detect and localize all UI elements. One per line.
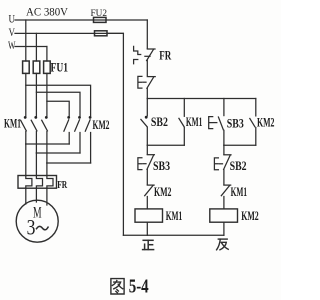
wire V line: [15, 32, 123, 34]
caption 5-4 text: [129, 277, 149, 298]
svg-text:SB2: SB2: [230, 159, 247, 173]
fuse FU1c: [44, 61, 51, 73]
wire V tap vertical: [35, 33, 37, 61]
wire right pair join: [224, 144, 256, 146]
contactor KM1 label: [4, 117, 21, 131]
contactor KM1 main contact pole3: [42, 116, 48, 131]
contactor KM1 main contact pole2: [31, 116, 37, 131]
thermal relay FR NC contact (control): [134, 46, 155, 63]
thermal relay FR heater box: [18, 176, 57, 189]
wire feed2 to FR: [35, 153, 37, 176]
KM1 coil label: [166, 209, 183, 223]
wire phase2 below FU1: [35, 73, 37, 115]
pushbutton SB3 NC (interlock, left branch): [138, 145, 155, 169]
wire phase1 below FU1: [25, 73, 27, 115]
svg-text:KM1: KM1: [166, 209, 183, 223]
SB2 label (lower right): [230, 159, 247, 173]
contactor KM1 main contact pole1: [21, 116, 27, 131]
wire control top rail: [147, 98, 256, 100]
motor tilde: [37, 226, 49, 229]
label 反 (reverse) drawn glyph: [217, 239, 229, 250]
svg-text:W: W: [8, 38, 16, 52]
svg-text:KM1: KM1: [186, 115, 203, 129]
wire V fuse riser (control return): [107, 33, 123, 235]
svg-text:KM2: KM2: [93, 118, 110, 132]
svg-text:5-4: 5-4: [129, 277, 149, 298]
FR heater element 3: [47, 176, 53, 189]
svg-text:KM1: KM1: [231, 185, 248, 199]
KM1 label (aux): [186, 115, 203, 129]
wire: [223, 170, 225, 185]
wire crossover U to KM2 pole3: [26, 85, 91, 116]
contact KM1 NC interlock (right branch): [221, 185, 230, 209]
wire crossover W to KM2 pole1: [47, 101, 69, 116]
svg-text:AC 380V: AC 380V: [26, 7, 69, 19]
wire coil KM1 to bottom rail: [146, 222, 148, 235]
svg-text:U: U: [9, 12, 16, 26]
svg-text:SB3: SB3: [227, 116, 244, 130]
wire feed1 to FR: [25, 144, 27, 176]
svg-text:SB3: SB3: [153, 159, 170, 173]
fuse FU2 label: [91, 9, 108, 19]
wire coil KM2 to bottom rail: [223, 222, 225, 235]
wire feed3 to FR: [46, 163, 48, 176]
wire KM1 pole1 lower: [25, 132, 27, 145]
svg-text:KM1: KM1: [4, 117, 21, 131]
contact KM1 NO aux (self-hold): [179, 99, 184, 146]
FR label (main): [57, 179, 68, 191]
pushbutton SB2 (forward start, NO): [141, 99, 148, 146]
wire U line: [15, 19, 147, 21]
svg-text:KM2: KM2: [257, 115, 275, 129]
wire W line: [15, 46, 47, 48]
fuse FU2b (V phase): [95, 31, 108, 36]
node W label: [8, 38, 16, 52]
SB2 label (upper): [151, 115, 168, 129]
label AC 380V: [26, 7, 69, 19]
wire U tap vertical: [25, 20, 27, 61]
fuse FU2a (U phase): [94, 17, 107, 22]
svg-text:SB2: SB2: [151, 115, 168, 129]
fuse FU1b: [33, 61, 40, 73]
contact KM2 NO aux (self-hold): [250, 99, 256, 146]
node U label: [9, 12, 16, 26]
FR heater element 2: [36, 176, 42, 189]
wire: [146, 170, 148, 185]
KM2 coil label: [241, 209, 259, 223]
contactor KM2 main contact pole2: [75, 116, 81, 131]
SB3 label (lower left): [153, 159, 170, 173]
wire KM1 pole2 lower: [35, 132, 37, 154]
wire KM2 pole3 lower: [90, 133, 92, 164]
fuse FU1a: [23, 61, 30, 73]
wire join pole1 pair: [26, 143, 69, 145]
fuse FU1 label: [51, 61, 69, 75]
wire control bottom rail: [123, 234, 223, 236]
contactor KM2 main contact pole3: [85, 116, 91, 131]
label 正 (forward) drawn glyph: [143, 240, 154, 249]
svg-text:FR: FR: [159, 48, 172, 62]
wire control right riser from U fuse: [146, 20, 148, 48]
wire between FR and SB1: [146, 60, 148, 75]
motor M letter: [33, 205, 42, 222]
wire motor stub3: [46, 188, 48, 205]
svg-text:V: V: [9, 25, 16, 39]
KM2 label (aux): [257, 115, 275, 129]
coil KM2: [210, 209, 238, 222]
pushbutton SB1 (stop, NC): [138, 76, 155, 88]
wire crossover V to KM2 pole2: [36, 92, 80, 116]
svg-text:FR: FR: [57, 179, 68, 191]
wire KM2 pole2 lower: [79, 133, 81, 154]
svg-text:FU1: FU1: [51, 61, 69, 75]
pushbutton SB2 NC (interlock, right branch): [214, 145, 231, 170]
SB3 label (upper): [227, 116, 244, 130]
wire phase3 below FU1: [46, 73, 48, 115]
node V label: [9, 25, 16, 39]
wire KM1 pole3 lower: [46, 132, 48, 164]
wire left pair join: [147, 144, 184, 146]
wire KM2 pole1 lower: [68, 133, 70, 145]
motor M circle: [16, 200, 58, 242]
wire join pole2 pair: [36, 152, 80, 154]
wire motor stub1: [25, 188, 27, 204]
pushbutton SB3 (reverse start, NO): [209, 99, 224, 146]
contactor KM2 main contact pole1: [64, 116, 70, 131]
KM2 label (interlock left): [154, 185, 172, 199]
coil KM1: [135, 209, 163, 222]
KM1 label (interlock right): [231, 185, 248, 199]
contact KM2 NC interlock (left branch): [145, 185, 154, 209]
contactor KM2 label: [93, 118, 110, 132]
wire join pole3 pair: [47, 162, 91, 164]
wire motor stub2: [35, 188, 37, 202]
svg-text:KM2: KM2: [154, 185, 172, 199]
FR heater element 1: [26, 176, 32, 189]
wire SB1 to top rail: [146, 89, 148, 99]
caption 图 drawn glyph: [111, 279, 124, 294]
FR label (control): [159, 48, 172, 62]
motor 3 digit: [27, 215, 36, 240]
svg-text:3: 3: [27, 215, 36, 240]
svg-text:KM2: KM2: [241, 209, 259, 223]
wire W tap vertical: [46, 47, 48, 62]
